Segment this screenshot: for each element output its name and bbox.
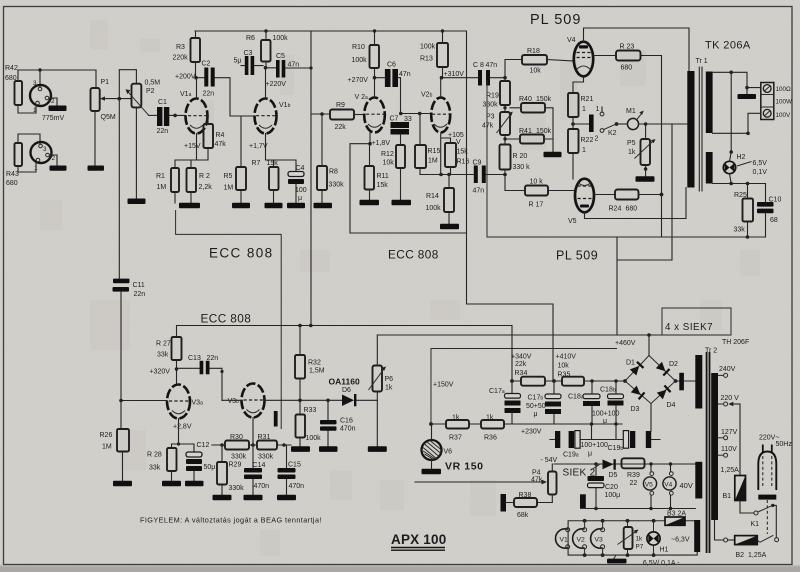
svg-text:R29: R29 xyxy=(229,462,242,469)
node +310V xyxy=(440,71,478,79)
capacitor C17b xyxy=(526,381,561,424)
wire +320V rail row xyxy=(177,324,513,337)
svg-text:775mV: 775mV xyxy=(42,115,65,122)
svg-text:22n: 22n xyxy=(203,91,215,98)
svg-text:100+100: 100+100 xyxy=(592,411,620,418)
socket V3 heater xyxy=(591,521,605,555)
svg-text:R21: R21 xyxy=(581,96,594,103)
lamp H1 xyxy=(647,521,669,555)
ground under R1 R2 xyxy=(179,203,200,208)
svg-text:100k: 100k xyxy=(352,57,368,64)
svg-text:330k: 330k xyxy=(483,102,499,109)
svg-text:1,25A: 1,25A xyxy=(748,552,767,559)
svg-text:+15V: +15V xyxy=(184,143,201,150)
terminal block output xyxy=(761,83,774,120)
capacitor C18a xyxy=(568,381,600,424)
svg-text:R16: R16 xyxy=(457,159,470,166)
capacitor C6 xyxy=(375,62,411,114)
svg-text:+460V: +460V xyxy=(615,340,636,347)
capacitor C3 xyxy=(234,50,264,75)
svg-text:22: 22 xyxy=(630,480,638,487)
svg-text:C14: C14 xyxy=(253,462,266,469)
resistor R25 xyxy=(734,184,754,239)
svg-text:C 8: C 8 xyxy=(473,62,484,69)
wire heater loop xyxy=(568,519,697,557)
wire V1b cathode xyxy=(249,143,296,171)
svg-text:1M: 1M xyxy=(102,444,112,451)
socket V4 heater xyxy=(663,462,676,510)
svg-text:R4: R4 xyxy=(216,132,225,139)
svg-text:100k: 100k xyxy=(420,44,436,51)
svg-text:47n: 47n xyxy=(399,71,411,78)
svg-text:B3 2A: B3 2A xyxy=(667,511,686,518)
resistor R1 xyxy=(156,168,179,203)
capacitor C12 electrolytic xyxy=(185,442,215,486)
svg-text:V2b: V2b xyxy=(421,92,433,99)
svg-text:R10: R10 xyxy=(352,44,365,51)
potentiometer P4 xyxy=(531,464,557,503)
svg-text:C9: C9 xyxy=(473,160,482,167)
resistor R11 xyxy=(360,144,389,206)
potentiometer P5 xyxy=(627,124,656,182)
svg-text:R32: R32 xyxy=(308,360,321,367)
bar minus terminal xyxy=(580,494,695,509)
svg-text:68k: 68k xyxy=(517,512,529,519)
svg-text:C17a: C17a xyxy=(489,388,505,395)
capacitor C11 xyxy=(113,279,146,429)
svg-text:330k: 330k xyxy=(329,182,345,189)
svg-text:22n: 22n xyxy=(134,291,146,298)
svg-text:33k: 33k xyxy=(149,465,161,472)
svg-text:R8: R8 xyxy=(329,169,338,176)
wire grid V3a xyxy=(119,399,167,403)
node +220V xyxy=(266,81,287,88)
resistor R19 xyxy=(483,60,511,113)
svg-text:C19a: C19a xyxy=(563,452,579,459)
svg-text:33k: 33k xyxy=(734,227,746,234)
capacitor bar at K2 xyxy=(573,115,594,133)
svg-text:1,5M: 1,5M xyxy=(309,368,325,375)
transformer Tr1 core xyxy=(699,67,702,191)
transformer Tr1 primary winding xyxy=(687,71,694,188)
svg-text:100k: 100k xyxy=(273,35,289,42)
svg-text:+340V: +340V xyxy=(511,354,532,361)
svg-text:~6,3V: ~6,3V xyxy=(671,537,690,544)
svg-text:D2: D2 xyxy=(669,361,678,368)
svg-text:47n: 47n xyxy=(486,62,498,69)
resistor R21 xyxy=(568,93,593,129)
svg-text:K1: K1 xyxy=(751,521,760,528)
wire V2a grid line xyxy=(399,112,432,116)
wire supply drop xyxy=(467,31,554,381)
capacitor C17a xyxy=(489,381,521,424)
svg-text:D5: D5 xyxy=(609,472,618,479)
svg-text:C7: C7 xyxy=(390,116,399,123)
svg-text:22n: 22n xyxy=(207,355,219,362)
svg-text:R39: R39 xyxy=(627,472,640,479)
capacitor C13 xyxy=(177,355,224,400)
label 6,5V 0,1A xyxy=(639,560,680,567)
potentiometer P2 xyxy=(126,80,161,116)
resistor R26 xyxy=(100,429,133,486)
diode D4 xyxy=(657,385,672,399)
resistor R40 xyxy=(510,96,562,157)
svg-text:H1: H1 xyxy=(660,547,669,554)
wire heater row xyxy=(713,182,766,186)
svg-text:R11: R11 xyxy=(377,173,389,180)
svg-text:V4: V4 xyxy=(664,482,672,489)
svg-text:R24: R24 xyxy=(609,206,622,213)
svg-text:680: 680 xyxy=(626,206,638,213)
diode D2 xyxy=(656,362,671,376)
resistor R12 xyxy=(381,145,411,205)
svg-text:R18: R18 xyxy=(527,48,540,55)
capacitor C14 xyxy=(244,445,270,500)
diode D1 xyxy=(630,361,644,376)
svg-text:1M: 1M xyxy=(428,158,438,165)
resistor R29 xyxy=(213,445,245,500)
transformer Tr1 label xyxy=(696,58,708,65)
wire R42 to pin1 xyxy=(18,105,36,113)
connector XLR input 1 xyxy=(30,80,55,114)
capacitor C19b xyxy=(592,424,661,452)
connector XLR input 2 xyxy=(31,142,56,172)
resistor R13 xyxy=(420,31,448,78)
label TH 206F xyxy=(722,339,749,346)
socket V5 heater xyxy=(643,462,656,510)
svg-text:100: 100 xyxy=(295,187,307,194)
svg-text:R42: R42 xyxy=(5,65,18,72)
wire rail drop xyxy=(310,31,312,326)
wire P1 wiper node xyxy=(107,70,137,101)
svg-text:+200V: +200V xyxy=(175,74,196,81)
triode V2a xyxy=(355,78,385,144)
triode V3b xyxy=(222,384,342,447)
resistor R23 xyxy=(593,44,661,195)
wire +V rail xyxy=(195,29,466,32)
svg-text:R 28: R 28 xyxy=(147,452,162,459)
resistor R2 xyxy=(187,168,213,203)
label PL 509 bottom xyxy=(556,249,598,263)
lamp H2 xyxy=(723,152,767,184)
svg-text:μ: μ xyxy=(588,451,592,458)
socket V1 heater xyxy=(556,528,570,549)
svg-text:+150V: +150V xyxy=(433,382,454,389)
svg-text:R9: R9 xyxy=(336,102,345,109)
svg-text:0,1V: 0,1V xyxy=(753,169,768,176)
svg-text:1: 1 xyxy=(582,106,586,113)
svg-text:1k: 1k xyxy=(636,536,644,543)
wire secondary to terminals xyxy=(713,71,761,90)
mains plug xyxy=(758,435,792,535)
potentiometer P1 xyxy=(91,79,116,121)
ground heater xyxy=(607,555,627,563)
capacitor C1 xyxy=(149,99,170,135)
svg-text:P4: P4 xyxy=(532,470,541,477)
bottom scan strip xyxy=(0,567,800,572)
svg-text:P5: P5 xyxy=(627,140,636,147)
wire node down to C11 xyxy=(118,99,120,279)
svg-text:V 2a: V 2a xyxy=(355,94,369,101)
node +270V xyxy=(348,76,377,84)
svg-text:ECC 808: ECC 808 xyxy=(209,246,274,261)
fuse B3 xyxy=(665,511,686,526)
svg-text:R3: R3 xyxy=(176,44,185,51)
terminal 220V xyxy=(718,395,740,476)
wire input top xyxy=(18,68,96,88)
svg-text:P1: P1 xyxy=(101,79,110,86)
svg-text:R1: R1 xyxy=(156,173,165,180)
svg-text:+270V: +270V xyxy=(348,77,369,84)
svg-text:C1: C1 xyxy=(158,99,167,106)
svg-text:10k: 10k xyxy=(530,68,542,75)
svg-text:150k: 150k xyxy=(536,96,552,103)
capacitor bar at bridge xyxy=(679,373,684,391)
svg-text:R40: R40 xyxy=(519,96,532,103)
resistor R36 xyxy=(481,415,504,442)
svg-text:V5: V5 xyxy=(568,218,577,225)
wire common down xyxy=(729,72,733,154)
svg-text:C2: C2 xyxy=(202,61,211,68)
svg-text:100k: 100k xyxy=(426,205,442,212)
capacitor C4 electrolytic xyxy=(287,165,307,208)
svg-text:C12: C12 xyxy=(197,442,210,449)
svg-text:PL 509: PL 509 xyxy=(530,12,581,28)
capacitor C19a xyxy=(550,424,608,459)
svg-text:C6: C6 xyxy=(387,62,396,69)
labels output xyxy=(776,86,793,119)
diode D3 xyxy=(631,386,646,400)
svg-text:ECC 808: ECC 808 xyxy=(201,312,252,326)
wire cathode row with C9 xyxy=(420,173,505,177)
svg-text:R15: R15 xyxy=(428,148,441,155)
svg-text:22k: 22k xyxy=(335,124,347,131)
svg-text:V3: V3 xyxy=(595,537,604,544)
ground under P1 xyxy=(88,111,105,171)
svg-text:APX 100: APX 100 xyxy=(391,532,446,547)
svg-text:2: 2 xyxy=(52,155,56,162)
svg-text:B2: B2 xyxy=(736,552,745,559)
svg-text:330k: 330k xyxy=(231,454,247,461)
resistor R17 xyxy=(525,179,576,209)
resistor R7 xyxy=(252,160,283,208)
svg-text:K2: K2 xyxy=(608,130,617,137)
meter M1 xyxy=(617,108,689,260)
diode D5 xyxy=(603,459,618,479)
svg-text:μ: μ xyxy=(534,411,538,418)
svg-text:15k: 15k xyxy=(267,160,279,167)
svg-text:V6: V6 xyxy=(444,449,453,456)
label 40V xyxy=(680,481,693,490)
label APX 100 xyxy=(391,532,446,550)
svg-text:V1: V1 xyxy=(560,537,569,544)
svg-text:Tr 1: Tr 1 xyxy=(696,58,708,65)
potentiometer P7 xyxy=(618,521,644,555)
svg-text:10k: 10k xyxy=(383,160,395,167)
transformer Tr2 winding 40V xyxy=(695,462,702,499)
svg-text:D1: D1 xyxy=(626,360,635,367)
svg-text:33: 33 xyxy=(404,116,412,123)
svg-text:R22: R22 xyxy=(581,137,594,144)
svg-text:V3a: V3a xyxy=(192,400,204,407)
svg-text:1M: 1M xyxy=(224,185,234,192)
svg-text:470n: 470n xyxy=(289,483,305,490)
svg-text:40V: 40V xyxy=(680,481,693,490)
switch K1b xyxy=(757,535,778,542)
wire R43 top to pin3 xyxy=(18,134,40,144)
tube V6 VR150 xyxy=(422,424,484,474)
svg-text:100W: 100W xyxy=(776,99,793,106)
svg-text:15k: 15k xyxy=(377,182,389,189)
svg-text:47k: 47k xyxy=(482,123,494,130)
wire +340V drop xyxy=(510,326,514,383)
svg-text:R33: R33 xyxy=(304,407,317,414)
svg-text:TH 206F: TH 206F xyxy=(722,339,749,346)
svg-text:R36: R36 xyxy=(484,435,497,442)
svg-text:C13: C13 xyxy=(188,355,201,362)
resistor R22 xyxy=(568,129,593,179)
svg-text:1: 1 xyxy=(582,147,586,154)
resistor R35 xyxy=(556,354,626,386)
svg-text:330 k: 330 k xyxy=(513,164,531,171)
svg-text:220k: 220k xyxy=(173,55,189,62)
svg-text:R41: R41 xyxy=(519,128,532,135)
svg-text:VR 150: VR 150 xyxy=(445,461,484,473)
capacitor C15 xyxy=(277,445,304,500)
svg-text:2: 2 xyxy=(51,98,55,105)
capacitor C16 xyxy=(319,399,356,452)
capacitor C20 xyxy=(588,464,621,510)
box PL509 outline xyxy=(487,80,766,237)
capacitor C2 xyxy=(196,61,255,117)
transformer Tr1 secondary winding top xyxy=(706,72,713,134)
capacitor C9 xyxy=(473,160,486,195)
wire +230V rail xyxy=(429,422,622,435)
svg-text:22n: 22n xyxy=(157,128,169,135)
svg-text:+230V: +230V xyxy=(521,429,542,436)
svg-text:10 k: 10 k xyxy=(530,179,544,186)
svg-text:680: 680 xyxy=(621,65,633,72)
resistor R24 xyxy=(609,190,664,238)
svg-text:470n: 470n xyxy=(340,426,356,433)
svg-text:C18a: C18a xyxy=(568,394,584,401)
svg-text:68: 68 xyxy=(770,217,778,224)
capacitor C10 xyxy=(757,184,781,238)
transformer Tr2 winding 6,3V xyxy=(694,520,700,552)
ground output xyxy=(738,88,757,99)
svg-text:D4: D4 xyxy=(667,402,676,409)
svg-text:V2: V2 xyxy=(577,537,586,544)
svg-text:P2: P2 xyxy=(146,88,155,95)
pentode V4 xyxy=(567,28,689,93)
label FIGYELEM note xyxy=(140,516,322,525)
svg-text:6,5V: 6,5V xyxy=(753,160,768,167)
svg-text:R31: R31 xyxy=(258,434,271,441)
resistor R34 xyxy=(511,354,562,386)
resistor R33 xyxy=(291,400,321,452)
resistor R20 xyxy=(500,139,531,191)
svg-text:R 2: R 2 xyxy=(199,173,210,180)
socket V2 heater xyxy=(573,521,587,555)
transformer Tr1 secondary winding bottom xyxy=(706,152,713,184)
wire feedback row xyxy=(350,232,467,234)
svg-text:330k: 330k xyxy=(229,485,245,492)
resistor R6 xyxy=(246,31,288,68)
svg-text:470n: 470n xyxy=(254,483,270,490)
svg-text:C11: C11 xyxy=(133,282,145,289)
resistor R37 xyxy=(446,415,469,442)
svg-text:680: 680 xyxy=(6,180,18,187)
resistor R8 xyxy=(311,112,344,208)
svg-text:B1: B1 xyxy=(723,493,732,500)
potentiometer P3 xyxy=(482,112,513,136)
svg-text:4 x SIEK7: 4 x SIEK7 xyxy=(665,322,713,333)
terminal 240V xyxy=(718,366,736,377)
resistor R14 xyxy=(426,175,460,230)
capacitor bar V3b xyxy=(274,411,278,427)
resistor R43 xyxy=(6,143,22,187)
svg-text:47n: 47n xyxy=(473,188,485,195)
svg-text:1,25A: 1,25A xyxy=(721,467,740,474)
wire feedback to PSU xyxy=(617,237,672,335)
capacitor C7 xyxy=(390,116,412,146)
label 6,3V xyxy=(671,537,690,544)
svg-text:. 6,5V/ 0,1A -: . 6,5V/ 0,1A - xyxy=(639,560,680,567)
wire to P4 xyxy=(415,480,547,485)
terminal 110V xyxy=(718,446,737,457)
svg-text:2: 2 xyxy=(595,136,599,143)
svg-text:50μ: 50μ xyxy=(204,464,216,471)
svg-text:5μ: 5μ xyxy=(234,58,242,65)
wire cathode row R30 R31 xyxy=(212,443,291,447)
svg-text:V5: V5 xyxy=(645,482,653,489)
svg-text:P7: P7 xyxy=(636,544,644,551)
label ECC 808 third xyxy=(201,312,252,326)
resistor R16 xyxy=(441,138,469,175)
svg-text:50+50: 50+50 xyxy=(526,403,546,410)
svg-text:V1b: V1b xyxy=(279,102,291,109)
node V2a cathode +1,8V xyxy=(350,140,390,233)
resistor R32 xyxy=(295,326,325,403)
svg-text:1k: 1k xyxy=(628,149,636,156)
resistor R4 xyxy=(184,117,226,161)
svg-text:C18b: C18b xyxy=(600,387,616,394)
box ECC808 first stage xyxy=(176,210,282,429)
svg-text:33k: 33k xyxy=(157,352,169,359)
svg-text:+310V: +310V xyxy=(444,71,465,78)
capacitor C5 xyxy=(264,53,313,78)
svg-text:100Ω: 100Ω xyxy=(776,86,792,93)
svg-text:V4: V4 xyxy=(567,37,576,44)
node -54V xyxy=(541,457,696,466)
svg-text:PL 509: PL 509 xyxy=(556,249,598,263)
triode V1b xyxy=(255,68,291,161)
svg-text:C17b: C17b xyxy=(528,395,544,402)
fuse B2 xyxy=(715,520,767,559)
svg-text:+1,8V: +1,8V xyxy=(372,140,391,147)
switch K1 xyxy=(751,504,777,538)
resistor R27 xyxy=(150,337,182,385)
svg-text:100μ: 100μ xyxy=(605,492,621,499)
transformer Tr2 core xyxy=(707,352,710,553)
svg-text:R26: R26 xyxy=(100,432,113,439)
svg-text:P6: P6 xyxy=(385,376,394,383)
svg-text:FIGYELEM: A változtatás jogát: FIGYELEM: A változtatás jogát a BEAG ten… xyxy=(140,516,322,525)
svg-text:R13: R13 xyxy=(420,56,433,63)
svg-text:3: 3 xyxy=(33,80,37,87)
svg-text:R6: R6 xyxy=(246,35,255,42)
transformer Tr2 winding HT xyxy=(695,355,702,409)
